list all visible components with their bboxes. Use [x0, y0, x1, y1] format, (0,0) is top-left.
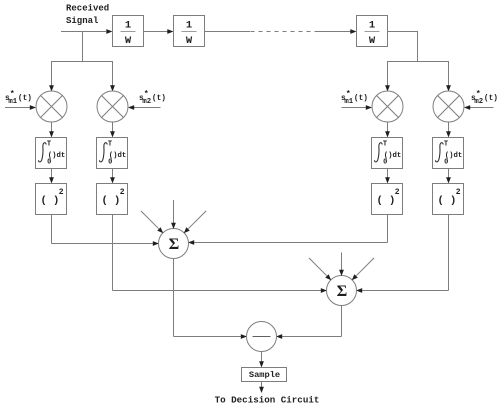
- svg-text:(: (: [377, 195, 383, 207]
- svg-text:()dt: ()dt: [384, 152, 402, 160]
- svg-text:(t): (t): [152, 95, 166, 103]
- svg-text:Σ: Σ: [169, 234, 180, 253]
- svg-text:m1: m1: [8, 98, 17, 106]
- svg-text:1: 1: [186, 19, 192, 31]
- svg-text:1: 1: [369, 19, 375, 31]
- svg-text:(t): (t): [354, 95, 368, 103]
- svg-text:m1: m1: [344, 98, 353, 106]
- svg-text:m2: m2: [142, 98, 151, 106]
- svg-text:(t): (t): [18, 95, 32, 103]
- svg-text:T: T: [47, 141, 51, 149]
- svg-text:m2: m2: [474, 98, 483, 106]
- svg-text:1: 1: [125, 19, 131, 31]
- svg-text:Signal: Signal: [66, 16, 99, 26]
- svg-text:(: (: [438, 195, 444, 207]
- svg-text:Σ: Σ: [337, 281, 348, 300]
- svg-text:T: T: [444, 141, 448, 149]
- svg-text:(t): (t): [484, 95, 498, 103]
- svg-text:W: W: [125, 35, 132, 47]
- svg-text:()dt: ()dt: [445, 152, 463, 160]
- svg-text:2: 2: [120, 188, 125, 197]
- svg-text:()dt: ()dt: [48, 152, 66, 160]
- svg-text:W: W: [186, 35, 193, 47]
- svg-text:2: 2: [59, 188, 64, 197]
- svg-text:(: (: [102, 195, 108, 207]
- svg-text:2: 2: [395, 188, 400, 197]
- svg-text:Received: Received: [66, 3, 109, 13]
- svg-text:To Decision Circuit: To Decision Circuit: [215, 395, 320, 406]
- svg-text:(: (: [41, 195, 47, 207]
- svg-text:2: 2: [456, 188, 461, 197]
- svg-text:T: T: [108, 141, 112, 149]
- svg-text:()dt: ()dt: [109, 152, 127, 160]
- svg-text:Sample: Sample: [249, 370, 280, 380]
- svg-text:W: W: [369, 35, 376, 47]
- svg-text:T: T: [383, 141, 387, 149]
